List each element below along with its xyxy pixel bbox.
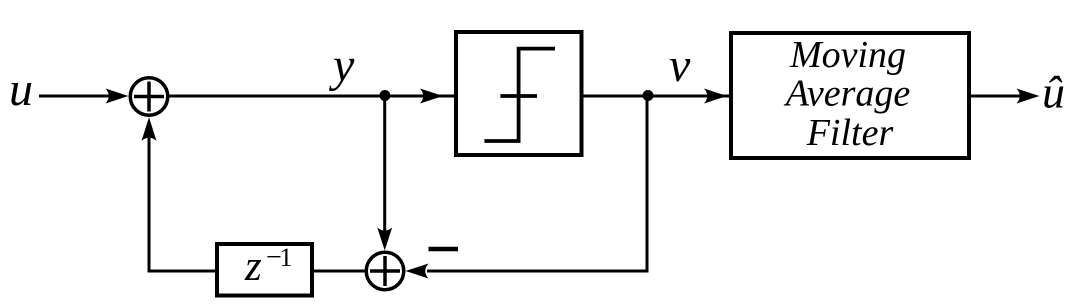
arrowhead into MAF bbox=[704, 89, 727, 104]
arrowhead to output bbox=[1017, 89, 1040, 104]
svg-text:v: v bbox=[669, 39, 691, 92]
arrowhead into S2 top bbox=[377, 227, 392, 250]
wire z-block left and up to summer S1 bbox=[149, 130, 217, 271]
arrowhead into S1 bbox=[106, 89, 129, 104]
summer S2 bbox=[366, 252, 404, 290]
minus sign on v feedback input bbox=[429, 247, 459, 252]
Moving Average Filter label bbox=[783, 34, 911, 154]
quantizer U1 box bbox=[456, 32, 582, 155]
svg-text:u: u bbox=[9, 63, 33, 116]
svg-text:z: z bbox=[244, 243, 262, 290]
svg-text:1: 1 bbox=[280, 243, 293, 272]
Moving Average Filter block U2 bbox=[731, 33, 969, 158]
wire y node down to summer S2 bbox=[383, 96, 386, 234]
svg-text:Average: Average bbox=[783, 73, 911, 115]
svg-text:Moving: Moving bbox=[789, 34, 906, 76]
wire S2 to z-block bbox=[314, 270, 365, 273]
svg-text:Filter: Filter bbox=[806, 112, 894, 154]
wire S1 to quantizer bbox=[170, 95, 457, 98]
arrowhead into quantizer bbox=[420, 89, 443, 104]
delay block z^-1 label bbox=[244, 242, 293, 290]
arrowhead into S1 bottom bbox=[142, 117, 157, 141]
node v junction dot bbox=[643, 90, 654, 101]
wire MAF to output bbox=[971, 95, 1025, 98]
wire u to summer S1 bbox=[39, 95, 112, 98]
quantizer U1 step symbol bbox=[484, 49, 555, 141]
node junction dot on y wire bbox=[379, 90, 390, 101]
summer S1 bbox=[130, 78, 168, 116]
arrowhead into S2 right bbox=[406, 264, 429, 279]
wire quantizer to MAF bbox=[584, 95, 732, 98]
wire v node down and left to summer S2 bbox=[427, 96, 649, 271]
svg-text:û: û bbox=[1042, 67, 1065, 118]
svg-text:y: y bbox=[328, 39, 355, 92]
delay block z^-1 bbox=[217, 244, 312, 296]
